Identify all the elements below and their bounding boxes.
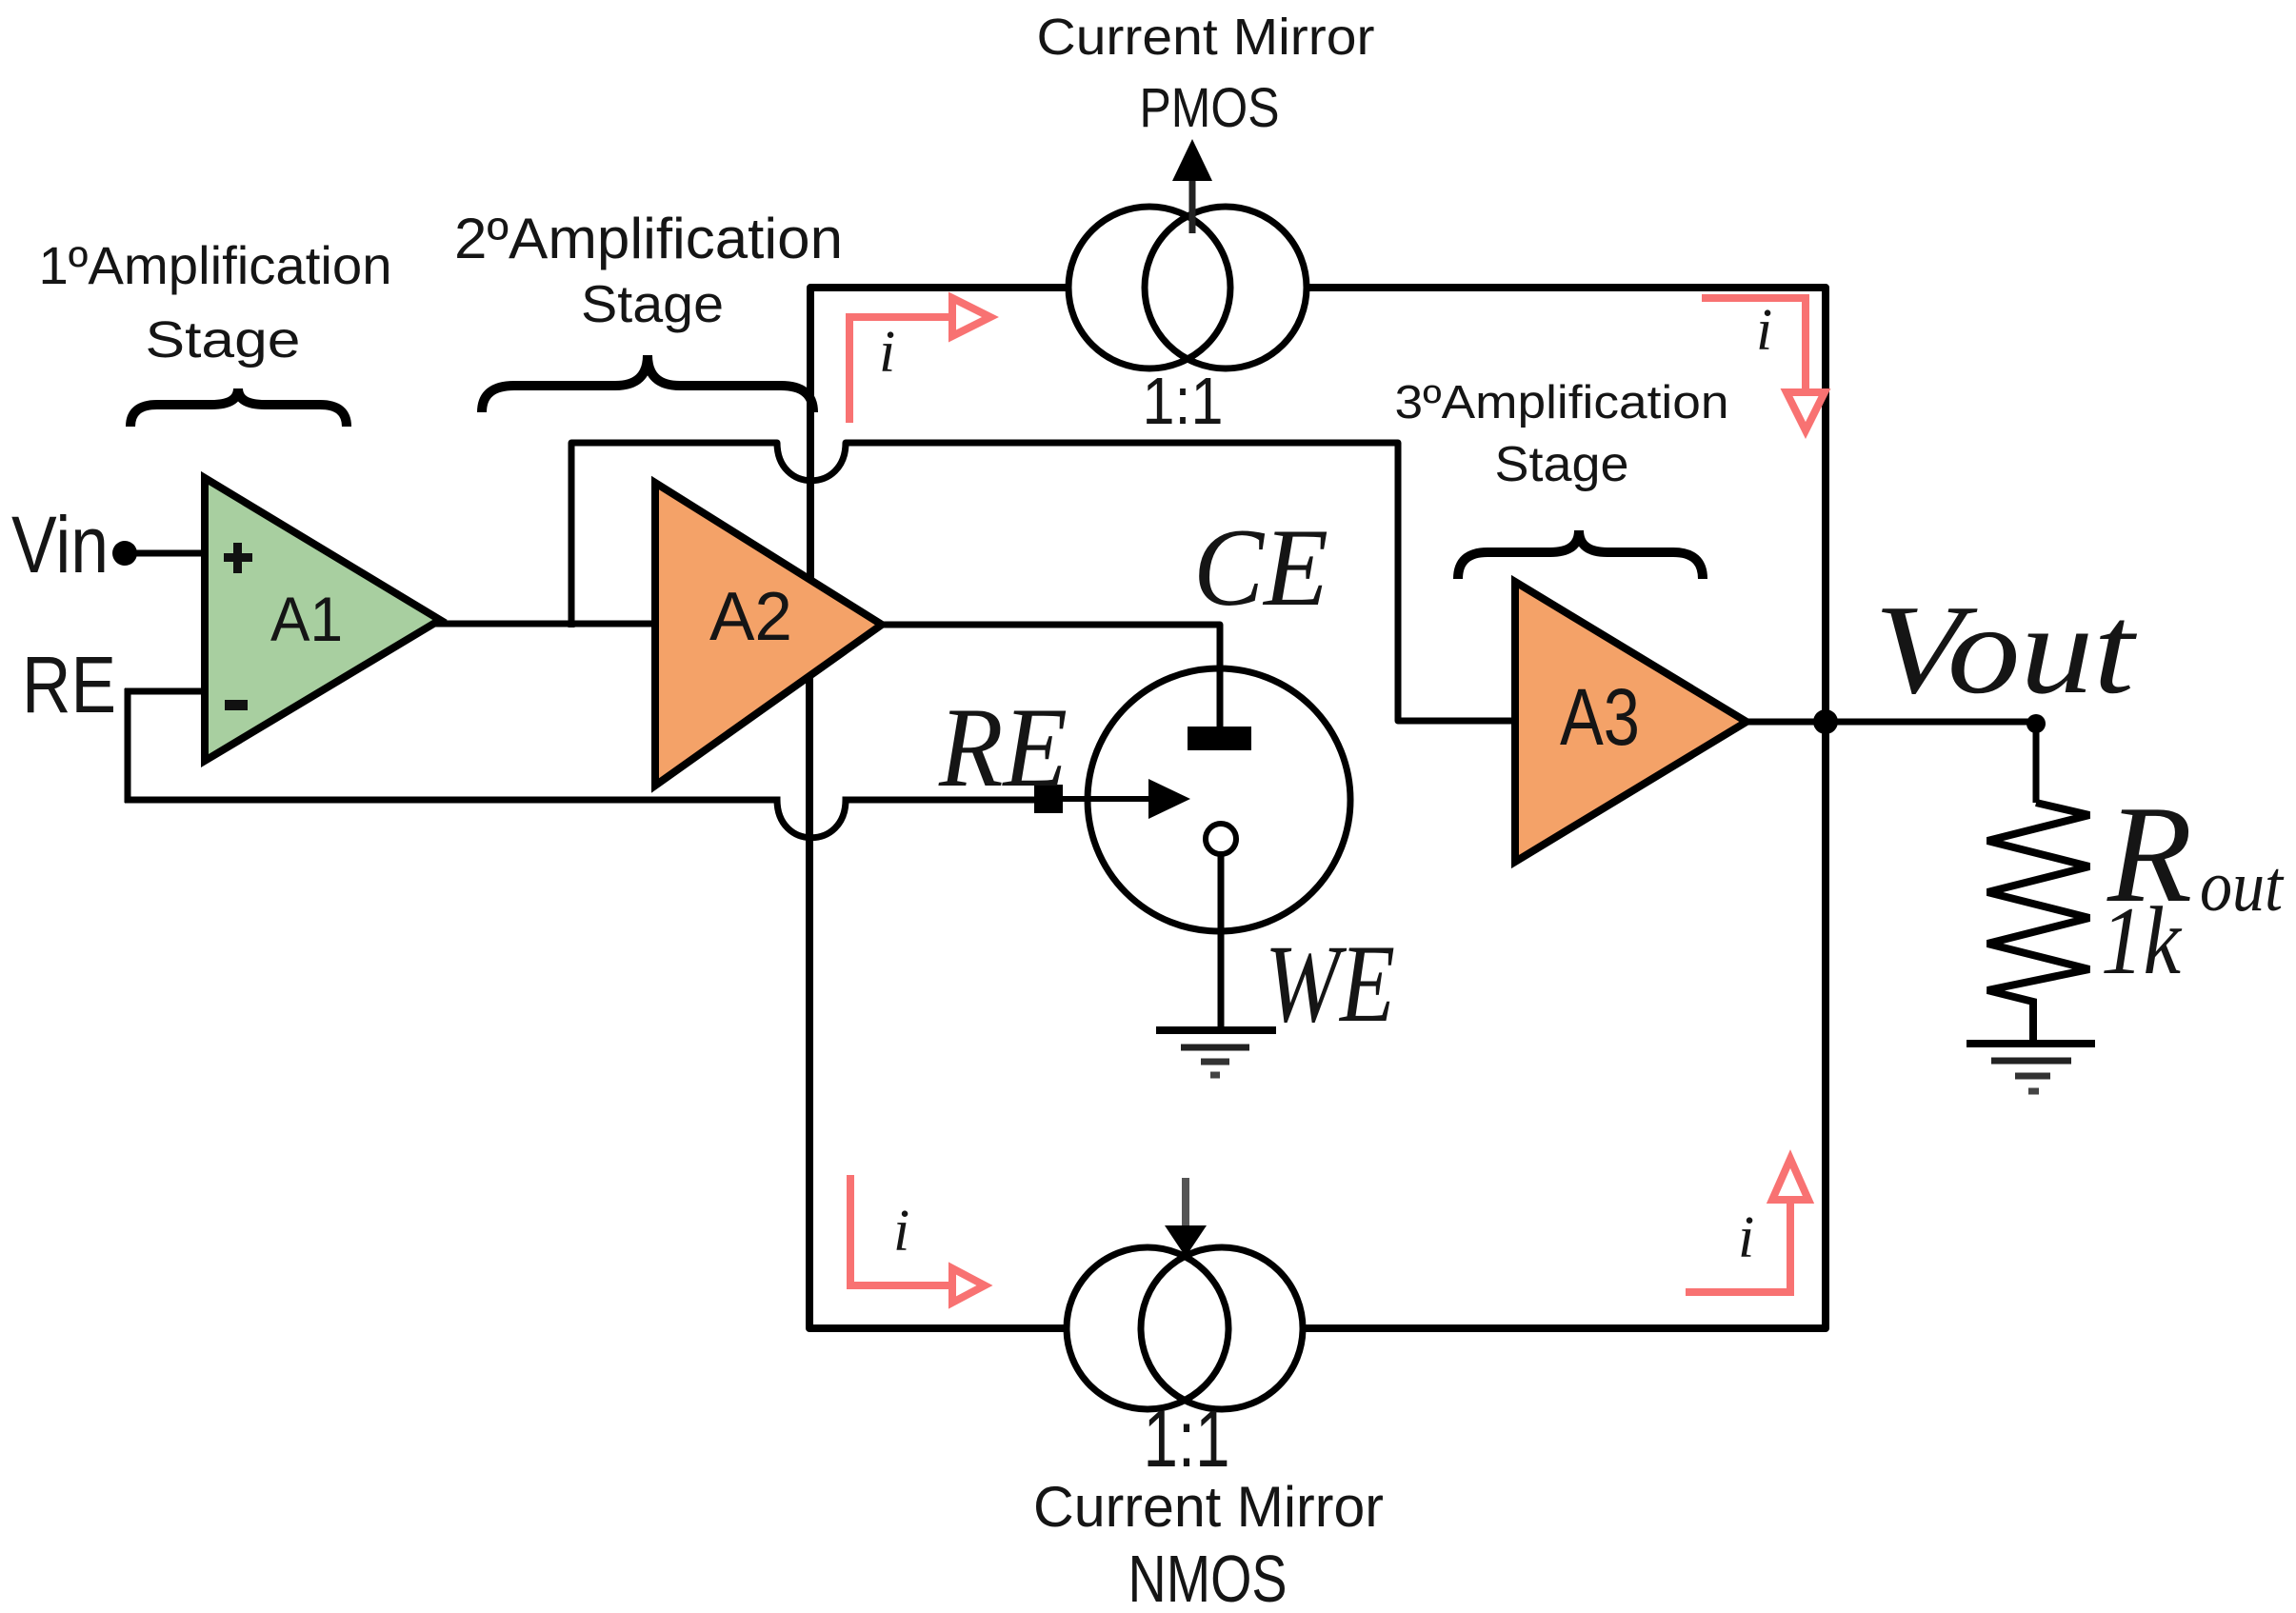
svg-text:i: i xyxy=(1738,1205,1754,1270)
svg-text:2ºAmplification: 2ºAmplification xyxy=(454,207,843,270)
svg-text:WE: WE xyxy=(1265,923,1395,1045)
red arrow current i bottom-left xyxy=(850,1175,985,1303)
electrochemical cell circle xyxy=(1088,668,1350,931)
wire Vout node to resistor xyxy=(1826,722,2036,803)
current mirror PMOS circles xyxy=(1068,207,1307,368)
svg-text:A1: A1 xyxy=(270,584,343,654)
svg-text:NMOS: NMOS xyxy=(1128,1542,1288,1613)
svg-text:Vout: Vout xyxy=(1874,579,2137,720)
ground for WE xyxy=(1156,1030,1276,1075)
svg-text:PMOS: PMOS xyxy=(1140,77,1280,139)
PMOS up arrow xyxy=(1189,175,1196,233)
svg-text:1ºAmplification: 1ºAmplification xyxy=(39,235,392,295)
op-amp A1 xyxy=(205,478,440,761)
op-amp A2 xyxy=(655,483,882,786)
svg-text:A3: A3 xyxy=(1560,672,1640,762)
resistor Rout zigzag xyxy=(1987,803,2089,1042)
svg-text:RE: RE xyxy=(938,684,1068,810)
brace stage 2 xyxy=(482,355,813,412)
cell RE square terminal xyxy=(1034,785,1063,813)
svg-text:Stage: Stage xyxy=(1495,437,1629,492)
svg-text:1:1: 1:1 xyxy=(1143,364,1224,438)
wire A2 output to cell CE xyxy=(876,625,1220,728)
svg-text:Current Mirror: Current Mirror xyxy=(1037,9,1375,66)
wire RE input to A1 minus xyxy=(125,688,209,695)
wire RE feedback bottom run with hop under A2 lower supply pin xyxy=(125,800,1034,838)
svg-text:3ºAmplification: 3ºAmplification xyxy=(1395,377,1729,428)
cell RE arrow into cell xyxy=(1063,796,1154,802)
wire A1 output branch up and across to A3 input (with hop) xyxy=(571,443,1517,721)
NMOS down arrow xyxy=(1182,1178,1189,1230)
A1 plus input symbol xyxy=(224,553,252,562)
node Vout junction dot xyxy=(1813,709,1838,734)
wire top rail right + right rail + bottom rail right xyxy=(1301,288,1826,1328)
ground for Rout xyxy=(1967,1044,2095,1091)
svg-text:i: i xyxy=(1756,298,1772,363)
brace stage 1 xyxy=(130,388,347,427)
svg-text:1k: 1k xyxy=(2101,887,2182,995)
cell WE small circle electrode xyxy=(1206,824,1236,854)
wire Vin input xyxy=(124,550,209,557)
svg-text:out: out xyxy=(2200,846,2285,926)
svg-text:Current Mirror: Current Mirror xyxy=(1033,1475,1384,1539)
red arrow current i top-left xyxy=(849,298,990,423)
current mirror NMOS circles xyxy=(1067,1247,1303,1409)
svg-text:1:1: 1:1 xyxy=(1144,1394,1230,1484)
svg-text:Vin: Vin xyxy=(11,500,109,589)
op-amp A3 xyxy=(1515,582,1747,862)
svg-text:Stage: Stage xyxy=(146,311,301,368)
svg-text:i: i xyxy=(879,320,895,385)
wire A3 output to Vout node xyxy=(1740,719,1826,726)
svg-text:A2: A2 xyxy=(709,579,792,655)
cell CE electrode plate xyxy=(1188,727,1251,750)
node Vin terminal dot xyxy=(112,541,137,566)
brace stage 3 xyxy=(1458,530,1703,579)
red arrow current i bottom-right xyxy=(1686,1159,1808,1292)
wire A2 bottom supply pin and bottom rail left segment xyxy=(809,675,1068,1328)
svg-text:CE: CE xyxy=(1193,507,1328,629)
wire A2 top supply pin and top rail left segment xyxy=(810,288,1070,581)
wire RE feedback vertical xyxy=(125,688,131,803)
svg-text:Stage: Stage xyxy=(581,274,724,333)
wire A1 output to A2 input xyxy=(433,621,657,627)
svg-text:i: i xyxy=(893,1199,909,1264)
svg-text:RE: RE xyxy=(22,640,116,729)
red arrow current i top-right xyxy=(1702,298,1825,430)
wire WE down to ground xyxy=(1218,854,1225,1028)
A1 minus input symbol xyxy=(225,700,248,710)
